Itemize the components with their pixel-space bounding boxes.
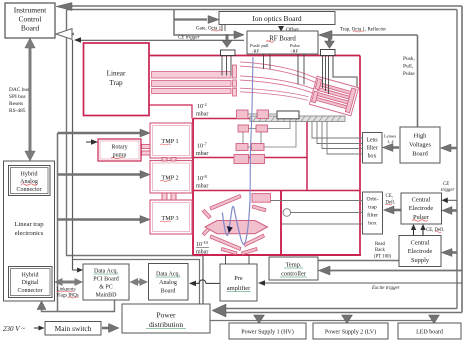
- hybrid analog connector: [9, 166, 51, 196]
- wire CE trigger pulser stub: [447, 199, 457, 201]
- svg-text:Pulse: Pulse: [403, 71, 415, 77]
- feedthrough circle: [283, 209, 291, 217]
- arrow RF board right head: [319, 31, 333, 40]
- svg-text:controller: controller: [281, 271, 307, 278]
- svg-text:Lenses: Lenses: [384, 134, 396, 139]
- svg-text:Excite trigger: Excite trigger: [371, 286, 400, 291]
- chamber left wall: [192, 119, 194, 256]
- arrow CE trigger left head: [74, 37, 81, 43]
- wire top bus A: [70, 5, 462, 7]
- svg-text:electronics: electronics: [15, 230, 44, 237]
- svg-text:Linkports: Linkports: [57, 288, 76, 293]
- svg-text:Orbi-: Orbi-: [366, 197, 378, 203]
- svg-text:Main switch: Main switch: [55, 324, 92, 333]
- arrow rotary pump: [86, 141, 92, 143]
- TMP1: [150, 123, 192, 158]
- svg-text:Pull,: Pull,: [403, 64, 414, 70]
- C-trap rod 3: [240, 90, 308, 99]
- wire CE trigger horizontal: [76, 39, 244, 41]
- svg-text:& PC: & PC: [99, 285, 113, 291]
- svg-text:10-8: 10-8: [197, 174, 207, 182]
- pre amplifier: [220, 264, 257, 301]
- svg-text:Hybrid: Hybrid: [21, 172, 38, 178]
- lens filter box: [363, 133, 383, 164]
- orbitrap wires to filter box: [271, 201, 363, 225]
- svg-text:Connector: Connector: [18, 288, 43, 294]
- TMP connectors: [142, 145, 177, 201]
- rotary pump: [98, 139, 141, 161]
- arrow into HVB right: [450, 147, 457, 150]
- svg-text:Hybrid: Hybrid: [22, 273, 39, 279]
- temp controller: [269, 257, 318, 280]
- wire left bus 1: [67, 10, 204, 305]
- wire top bus B: [67, 9, 458, 11]
- svg-text:trap: trap: [368, 205, 377, 211]
- ion wave: [222, 201, 250, 244]
- TMP2: [150, 161, 192, 194]
- svg-text:Resets: Resets: [9, 101, 23, 107]
- arrow down into PS1: [254, 315, 265, 324]
- svg-text:Board: Board: [21, 24, 40, 33]
- arrow CE trigger into pulser: [442, 198, 448, 204]
- lens wires to filter box: [312, 122, 363, 155]
- lens stack boxes row2: [238, 125, 268, 132]
- arrow 230V into main switch: [34, 327, 40, 329]
- svg-text:Instrument: Instrument: [14, 6, 47, 15]
- svg-text:trigger: trigger: [441, 188, 454, 193]
- wire RF feed horizontal: [330, 34, 418, 36]
- svg-text:mbar: mbar: [196, 151, 208, 157]
- data acq PCI board: [83, 264, 129, 300]
- svg-text:DAC bus: DAC bus: [9, 87, 29, 93]
- label push pull pulse: [403, 56, 415, 77]
- high voltages board: [400, 127, 440, 163]
- hybrid digital connector: [9, 267, 53, 298]
- lens stack boxes row3: [236, 144, 264, 151]
- arrow into ICB top: [56, 3, 72, 11]
- data acq analog board: [149, 264, 189, 301]
- svg-text:Board: Board: [412, 151, 428, 158]
- lens stack boxes row1: [237, 110, 269, 119]
- wire right inner vertical: [456, 10, 458, 309]
- svg-text:(PT 100): (PT 100): [374, 255, 392, 260]
- chamber divider 1: [193, 118, 307, 120]
- chamber divider 3: [193, 190, 360, 192]
- label CE Defl at filter box: [386, 194, 396, 206]
- orbitrap central electrode: [205, 221, 268, 234]
- chamber step from trap: [149, 105, 192, 119]
- svg-text:10-7: 10-7: [197, 141, 207, 149]
- svg-text:Rotary: Rotary: [111, 145, 127, 151]
- svg-text:230 V ~: 230 V ~: [3, 325, 25, 333]
- svg-text:1, 4: 1, 4: [387, 139, 394, 145]
- svg-text:Connector: Connector: [17, 187, 42, 193]
- wire excite trigger line: [261, 282, 462, 284]
- label pressure 1: [196, 102, 208, 118]
- label pressure 3: [196, 174, 208, 190]
- arrow down into PS2: [342, 315, 353, 324]
- wire LTE power line: [42, 300, 115, 312]
- svg-text:Supply: Supply: [411, 257, 430, 264]
- arrow into temp controller: [319, 266, 331, 275]
- arrow ion optics left feed: [174, 10, 243, 36]
- svg-text:10-2: 10-2: [197, 102, 207, 110]
- label gate octa: [196, 27, 222, 32]
- arrow linkports double: [60, 281, 78, 284]
- wire supplies feed: [210, 320, 435, 322]
- wave arrowhead: [227, 226, 233, 233]
- orbitrap outer electrode bottom-left: [210, 235, 241, 251]
- wire CE trigger left vertical: [72, 40, 74, 270]
- svg-text:Central: Central: [411, 240, 430, 247]
- svg-text:Data Acq.: Data Acq.: [94, 269, 118, 275]
- pins reflector: [323, 56, 329, 95]
- orbitrap small electrode left lower: [202, 226, 211, 235]
- ion optics board: [219, 12, 335, 25]
- arrow down into LED board: [429, 315, 440, 324]
- svg-text:Pre: Pre: [234, 275, 243, 282]
- label trap octa reflector: [340, 28, 386, 33]
- svg-text:Electrode: Electrode: [408, 248, 433, 255]
- RF board: [247, 31, 318, 54]
- svg-text:Flags IRQs: Flags IRQs: [57, 294, 79, 299]
- label DAC bus: [9, 87, 29, 114]
- svg-text:Trap, Octa 1, Reflector: Trap, Octa 1, Reflector: [340, 28, 386, 33]
- orbitrap bottom slat right: [242, 248, 258, 255]
- svg-text:High: High: [414, 133, 428, 140]
- svg-text:MainBD: MainBD: [96, 293, 118, 299]
- svg-text:-RF: -RF: [252, 49, 260, 54]
- orbitrap bottom slat left: [221, 248, 237, 255]
- svg-text:Board: Board: [161, 289, 176, 295]
- lens stack boxes row4: [234, 155, 265, 164]
- chamber bottom line: [193, 254, 361, 256]
- chamber top line: [149, 55, 360, 57]
- ion beam blue line: [250, 57, 253, 201]
- svg-text:10-10: 10-10: [196, 240, 209, 248]
- arrow CE Defl up arrows: [413, 228, 415, 236]
- svg-text:Central: Central: [412, 197, 431, 204]
- quad rod 2: [152, 81, 232, 87]
- svg-text:box: box: [368, 154, 377, 160]
- svg-text:Analog: Analog: [159, 280, 177, 286]
- svg-text:Power: Power: [157, 311, 176, 320]
- gate lens column: [233, 65, 237, 96]
- arrow into lens filter box: [392, 146, 399, 149]
- connector block trap: [321, 50, 336, 56]
- arrow into LTE bottom: [37, 301, 46, 310]
- orbitrap outer electrode top-left: [210, 195, 241, 211]
- svg-text:filter: filter: [367, 212, 378, 219]
- white box on rail: [277, 111, 299, 119]
- svg-text:Trap: Trap: [109, 79, 123, 87]
- linear trap electronics outer box: [4, 161, 55, 301]
- connector block gate: [221, 50, 236, 56]
- arrow TMP1 feed: [57, 133, 59, 312]
- orbitrap small electrode left upper: [202, 210, 211, 219]
- svg-text:Power Supply 1 (HV): Power Supply 1 (HV): [241, 329, 294, 336]
- label CE trigger right: [441, 182, 454, 193]
- svg-text:filter: filter: [366, 145, 377, 152]
- svg-text:Data Acq.: Data Acq.: [156, 272, 180, 278]
- wire reflector branch: [333, 56, 357, 91]
- chamber mid vertical: [306, 119, 308, 191]
- svg-text:distribution: distribution: [149, 320, 183, 329]
- label linkports flags irqs: [57, 288, 79, 299]
- quad rod 3: [152, 89, 232, 94]
- arrow preamp to analog board: [195, 280, 220, 284]
- gray rail: [250, 116, 345, 122]
- wire power wide line upper: [219, 308, 457, 310]
- svg-text:Push,: Push,: [403, 56, 415, 62]
- svg-text:Temp.: Temp.: [285, 262, 301, 269]
- instrument control board: [5, 3, 55, 38]
- orbitrap box right wall: [280, 191, 282, 256]
- svg-text:Lens: Lens: [366, 138, 378, 144]
- svg-text:Power Supply 2 (LV): Power Supply 2 (LV): [325, 329, 376, 336]
- svg-text:RF Board: RF Board: [269, 36, 296, 43]
- chamber right wall: [359, 56, 361, 256]
- chamber divider 2: [193, 157, 307, 159]
- label pressure 2: [196, 141, 208, 157]
- arrow into pulser right gray: [451, 209, 457, 212]
- svg-text:RS-485: RS-485: [9, 108, 26, 114]
- wire left bus 2 branch: [73, 260, 200, 305]
- svg-text:Linear trap: Linear trap: [14, 221, 44, 228]
- arrow trap block down: [328, 35, 331, 42]
- arrow into orbitrap filter box: [393, 209, 401, 212]
- label lenses 1 4: [384, 134, 396, 146]
- orbitrap small electrode top-right: [252, 205, 266, 212]
- svg-text:CE, Defl.: CE, Defl.: [426, 228, 444, 233]
- central electrode supply: [399, 236, 441, 267]
- svg-text:~RF: ~RF: [290, 49, 299, 54]
- arrow into CES right gray: [451, 251, 458, 254]
- power distribution: [122, 304, 210, 333]
- LED board: [398, 323, 461, 339]
- svg-text:CE: CE: [443, 182, 449, 187]
- pins trap exit: [222, 56, 231, 76]
- svg-text:CE trigger: CE trigger: [178, 36, 200, 41]
- orbitrap filter box: [363, 192, 383, 234]
- arrow gate block down: [226, 34, 229, 41]
- linear trap box: [84, 43, 150, 116]
- arrow TMP2 feed: [58, 173, 142, 175]
- C-trap rod 2: [240, 78, 313, 91]
- arrow main switch to power dist: [102, 327, 110, 330]
- label pressure 4: [196, 240, 209, 256]
- lens stack internal wires: [243, 114, 296, 147]
- pins ion optics to RF: [221, 25, 223, 32]
- arrow PCI analog double: [134, 281, 145, 284]
- preamp signal wires: [226, 255, 250, 264]
- svg-text:Push/ pull: Push/ pull: [250, 43, 269, 48]
- svg-text:PCI Board: PCI Board: [93, 277, 119, 283]
- label read back pt100: [374, 242, 392, 260]
- svg-text:Voltages: Voltages: [409, 142, 431, 149]
- wire power wide line lower: [219, 312, 462, 314]
- svg-text:Control: Control: [19, 15, 42, 24]
- label CE Defl at pulser bottom: [426, 228, 444, 233]
- quad rod 1: [152, 72, 232, 79]
- svg-text:Electrode: Electrode: [409, 205, 434, 212]
- svg-text:mbar: mbar: [196, 112, 208, 118]
- svg-text:Pulse: Pulse: [290, 43, 300, 48]
- wire right outer vertical: [461, 6, 463, 313]
- arrow excite into preamp: [258, 280, 265, 286]
- orbitrap deflector box: [252, 194, 271, 203]
- svg-text:LED board: LED board: [416, 330, 443, 336]
- svg-text:amplifier: amplifier: [227, 285, 251, 292]
- arrow CE trigger into PCI board: [77, 268, 83, 273]
- arrow offset down: [278, 26, 284, 32]
- orbitrap outer electrode bottom-right: [244, 234, 265, 246]
- wire CES readback line: [318, 260, 399, 262]
- wire temp controller line: [322, 270, 462, 272]
- arrow hollow into ICB right: [67, 33, 75, 35]
- svg-text:Ion optics Board: Ion optics Board: [252, 14, 302, 23]
- power supply 2: [313, 323, 388, 339]
- C-trap rod 1: [240, 64, 319, 82]
- pins RF push pull: [264, 54, 305, 85]
- svg-text:box: box: [368, 221, 377, 227]
- arrow TMP3 feed: [58, 218, 142, 220]
- svg-text:Back: Back: [375, 248, 385, 253]
- central electrode pulser: [401, 193, 442, 224]
- TMP3: [150, 200, 192, 234]
- reflector stack: [309, 76, 358, 115]
- arrow wide into power dist: [212, 304, 226, 317]
- svg-text:Read: Read: [375, 242, 385, 247]
- svg-text:SPI bus: SPI bus: [9, 94, 26, 100]
- main switch: [45, 322, 101, 336]
- svg-text:Digital: Digital: [22, 280, 39, 286]
- power supply 1: [229, 323, 306, 339]
- svg-text:mbar: mbar: [196, 184, 208, 190]
- svg-text:mbar: mbar: [196, 250, 208, 256]
- arrow DAC bus double vertical: [29, 44, 32, 155]
- svg-text:CE,: CE,: [386, 194, 393, 199]
- svg-text:Linear: Linear: [107, 70, 126, 78]
- wire HV board top feed: [417, 35, 419, 127]
